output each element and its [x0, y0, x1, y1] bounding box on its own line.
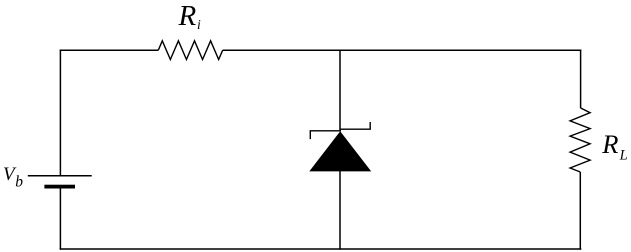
resistor R_L (load resistor, vertical zigzag): [570, 108, 590, 172]
wire left vertical upper (to battery): [59, 50, 61, 177]
battery V1 negative plate (short thick): [44, 185, 75, 189]
svg-text:i: i: [197, 17, 201, 32]
wire top-right segment: [223, 49, 582, 51]
wire bottom: [60, 248, 582, 250]
battery V1 positive plate (long thin): [28, 175, 92, 177]
resistor R_i (series resistor, zigzag on top wire): [158, 41, 222, 60]
wire right vertical lower: [579, 172, 581, 250]
wire middle vertical lower (zener anode to bottom junction): [339, 171, 341, 250]
zener diode D1 cathode bar left half with down tick: [310, 131, 341, 139]
wire middle vertical upper (node A junction to zener cathode): [339, 50, 341, 132]
svg-text:R: R: [178, 0, 197, 32]
zener diode D1 cathode bar right half with up tick: [340, 122, 371, 129]
zener diode D1 anode triangle (filled): [309, 131, 371, 171]
svg-text:R: R: [601, 129, 618, 159]
wire top-left segment: [60, 49, 159, 51]
wire left vertical lower (battery to bottom): [59, 189, 61, 250]
svg-text:L: L: [619, 148, 628, 164]
wire right vertical upper: [580, 50, 582, 109]
svg-text:b: b: [15, 174, 23, 191]
